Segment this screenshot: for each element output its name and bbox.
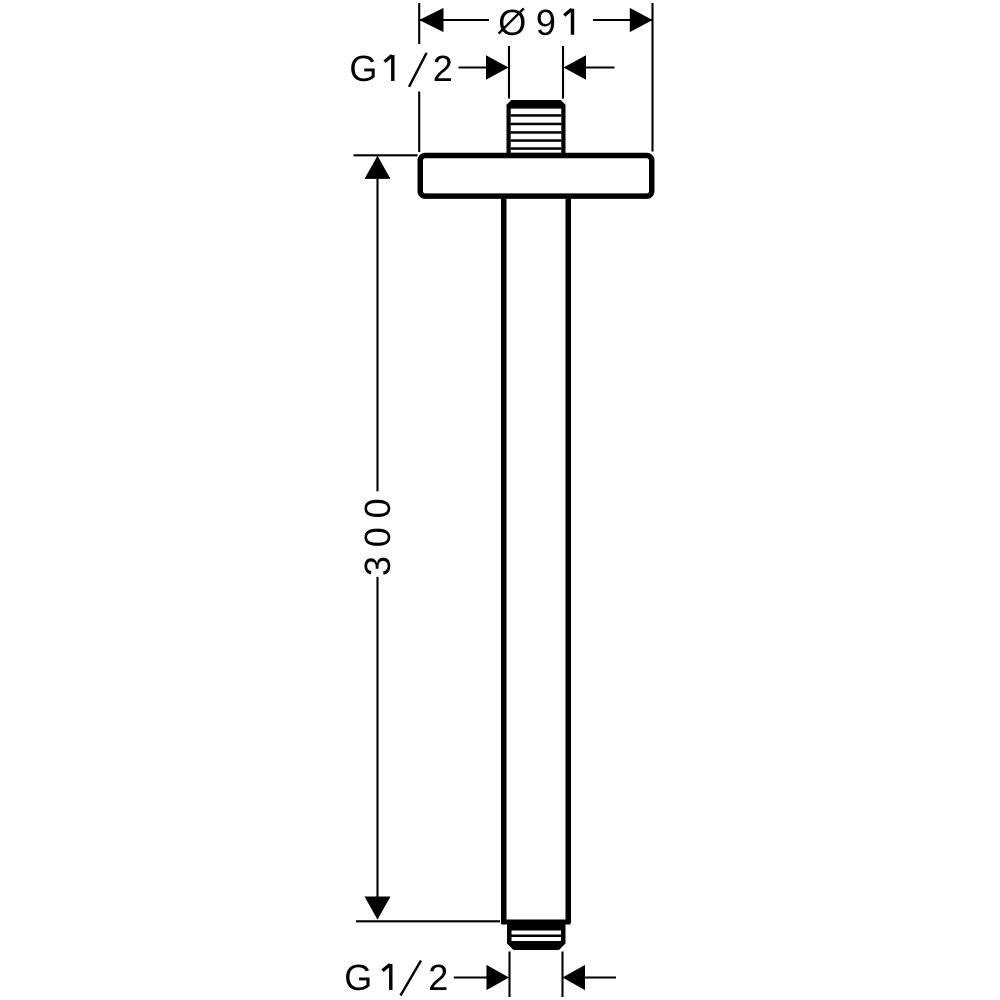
svg-text:G: G [349,48,377,89]
svg-text:2: 2 [433,48,453,89]
svg-text:O: O [498,2,526,43]
svg-text:9: 9 [536,2,556,43]
svg-text:2: 2 [428,957,448,998]
svg-text:300: 300 [357,490,398,576]
svg-text:G: G [344,957,372,998]
